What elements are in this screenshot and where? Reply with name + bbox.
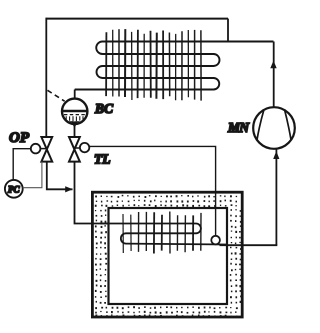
condenser coil tube 3 [103,65,214,67]
wire: condenser outlet drop into receiver BC [74,90,76,99]
arrow: flow up into compressor [273,151,279,159]
compressor internal vane left [257,110,264,140]
wire: OP valve outlet down and right to liquid line [47,162,73,190]
TL sensing bulb on suction line [211,236,220,245]
cold box insulation stipple [95,195,242,318]
svg-text:TL: TL [94,152,111,167]
pressure controller PC [5,180,23,198]
wire: suction line from evaporator outlet [220,244,278,246]
wire: receiver BC outlet to expansion valve TL [74,124,76,137]
condenser left U-bend tubes 3-4 [97,66,103,78]
OP valve pilot head (circle) [31,144,41,154]
receiver BC liquid hatching [66,116,83,122]
wire: suction line riser to compressor [275,149,277,245]
OP valve actuator stem [41,148,47,150]
svg-text:OP: OP [9,130,30,146]
condenser right U-bend tubes 4-5 [214,78,220,90]
TL valve thermostatic head (circle) [80,143,89,152]
receiver BC internal baffle [62,110,87,112]
cold box outer wall [92,192,242,317]
evaporator tube 1 (inlet) [100,223,196,225]
cold box inner wall [109,208,228,304]
arrow: flow up on discharge line [270,61,276,69]
wire: TL valve outlet down to evaporator inlet [75,162,108,224]
evaporator fins [123,212,201,254]
condenser right U-bend tubes 2-3 [214,54,220,66]
condenser coil tube 2 [103,53,214,55]
solenoid/bypass valve OP (bowtie) [41,137,52,162]
wire: control line PC to OP valve (thin) [23,162,42,188]
wire: capillary from TL head to sensing bulb [89,146,215,235]
arrow: flow down into expansion valve TL [71,121,77,128]
condenser coil tube 5 (bottom, outlet to receiver BC) [75,89,214,91]
wire: discharge line from compressor MN up to condenser [273,42,275,108]
wire: top hot-gas bypass line [46,18,229,20]
wire: control line PC to OP pilot head [13,149,31,180]
TL valve actuator stem [74,147,80,149]
receiver BC [62,99,87,124]
condenser coil tube 4 [103,77,214,79]
wire: dashed equalizer from riser to receiver BC [48,90,65,101]
expansion valve TL (bowtie) [69,137,80,162]
svg-text:PC: PC [8,184,20,194]
svg-text:MN: MN [227,120,250,135]
evaporator tube 2 [126,232,196,234]
evaporator right U-bend tubes 1-2 [196,224,201,234]
evaporator left U-bend tubes 2-3 [121,233,126,243]
wire: bypass drop to condenser inlet tube [227,19,229,42]
evaporator tube 3 (outlet) [126,243,228,246]
condenser left U-bend tubes 1-2 [96,42,102,55]
wire: riser from OP valve to top bypass line [45,18,47,138]
condenser coil tube 1 (top, inlet from compressor) [103,41,274,43]
compressor MN [253,107,295,149]
condenser coil fins [106,29,201,101]
arrow: flow right from OP valve branch [65,186,73,192]
receiver BC liquid level dashes [64,114,86,116]
svg-text:BC: BC [94,101,114,116]
compressor internal vane right [285,110,292,140]
